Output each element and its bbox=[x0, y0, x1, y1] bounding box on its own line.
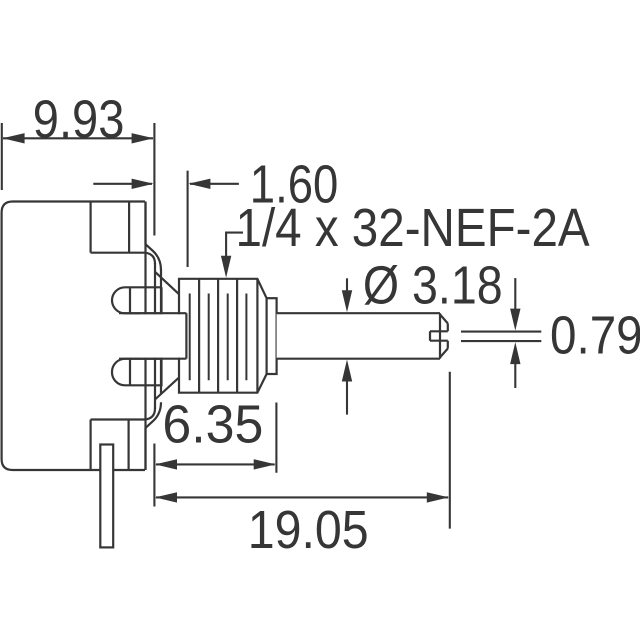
arrowhead 0.79 bottom (points up) bbox=[510, 342, 520, 364]
thread groove line 3 bbox=[236, 279, 238, 393]
bottom terminal pin bbox=[100, 445, 113, 548]
shaft tip chamfer bottom bbox=[440, 349, 448, 358]
dim 6.35 extension line right bbox=[275, 403, 277, 473]
thread crest line 2 bbox=[208, 294, 210, 381]
dim 1.60 extension line right bbox=[187, 171, 189, 267]
svg-text:19.05: 19.05 bbox=[248, 500, 369, 560]
svg-text:6.35: 6.35 bbox=[162, 395, 263, 455]
dim 9.93 extension line left bbox=[1, 123, 3, 190]
thread groove line 2 bbox=[217, 279, 219, 393]
taper cone lower line bbox=[155, 378, 179, 400]
bushing right face bbox=[256, 279, 258, 393]
svg-text:Ø 3.18: Ø 3.18 bbox=[363, 255, 503, 315]
svg-text:1/4 x 32-NEF-2A: 1/4 x 32-NEF-2A bbox=[236, 197, 590, 257]
mounting plate right edge bbox=[160, 269, 162, 394]
shaft bbox=[277, 313, 440, 359]
shaft end face bbox=[439, 313, 441, 359]
arrowhead 1.60 right (points left) bbox=[188, 179, 210, 189]
dim 1.60 left arrow line bbox=[93, 183, 152, 185]
lower terminal lug bbox=[112, 359, 162, 386]
top mounting tab bbox=[89, 202, 91, 253]
shaft tip face bbox=[447, 323, 449, 348]
dim 19.05 extension line right bbox=[449, 372, 451, 529]
arrowhead 1.60 left (points right) bbox=[132, 179, 154, 189]
body right edge bbox=[144, 202, 146, 471]
thread groove line 1 bbox=[198, 279, 200, 393]
arrowhead 0.79 top (points down) bbox=[510, 309, 520, 331]
shaft hub between body and bushing bbox=[140, 314, 186, 357]
dim dia 3.18 upper arrow line bbox=[346, 278, 348, 299]
dim 0.79 upper arrow line bbox=[514, 278, 516, 317]
arrowhead 19.05 left bbox=[155, 492, 177, 502]
thread crest line 3 bbox=[227, 294, 229, 381]
arrowhead dia 3.18 top (points down) bbox=[342, 290, 352, 312]
dim 6.35 / 19.05 extension line left bbox=[153, 444, 155, 507]
thread crest line 4 bbox=[245, 294, 247, 381]
dim 6.35 line bbox=[156, 463, 275, 465]
arrowhead thread leader (points down) bbox=[221, 256, 231, 278]
dim 9.93 / 1.60 extension line at plate bbox=[153, 123, 155, 236]
dim 0.79 extension line bottom bbox=[461, 340, 541, 342]
svg-text:9.93: 9.93 bbox=[33, 88, 125, 149]
dim 0.79 lower arrow line bbox=[514, 356, 516, 388]
arrowhead 6.35 left bbox=[155, 459, 177, 469]
dim 19.05 line bbox=[156, 496, 448, 498]
dim dia 3.18 lower arrow line bbox=[346, 373, 348, 415]
arrowhead dia 3.18 bottom (points up) bbox=[342, 360, 352, 382]
thread crest line 1 bbox=[189, 294, 191, 381]
mounting plate left edge bbox=[154, 263, 156, 409]
upper terminal lug bbox=[112, 287, 162, 313]
potentiometer body outline bbox=[2, 202, 145, 471]
arrowhead 9.93 left bbox=[3, 133, 25, 143]
dim 0.79 extension line top bbox=[461, 331, 541, 333]
shaft tip chamfer top bbox=[440, 315, 448, 324]
leader line for thread spec bbox=[226, 233, 243, 264]
shaft step ring bbox=[267, 298, 277, 374]
dim 9.93 line bbox=[3, 137, 153, 139]
svg-text:0.79: 0.79 bbox=[550, 305, 640, 365]
taper cone upper line bbox=[155, 272, 179, 294]
dim 1.60 right arrow line bbox=[190, 183, 239, 185]
screwdriver slot bbox=[430, 331, 448, 340]
arrowhead 19.05 right bbox=[427, 492, 449, 502]
arrowhead 6.35 right bbox=[254, 459, 276, 469]
threaded bushing outline bbox=[179, 279, 267, 393]
arrowhead 9.93 right bbox=[132, 133, 154, 143]
bottom mounting tab bbox=[89, 420, 91, 471]
